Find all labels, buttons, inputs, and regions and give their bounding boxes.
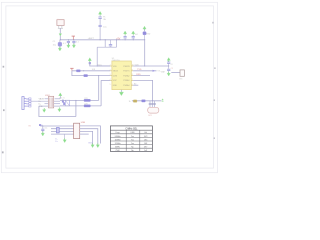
svg-text:8: 8	[132, 74, 133, 76]
wire A main rail	[60, 39, 121, 41]
svg-text:GND: GND	[88, 143, 93, 145]
U1 left pin 3	[110, 75, 112, 77]
D1 stem upper	[144, 29, 146, 32]
svg-text:7: 7	[132, 79, 133, 81]
junction node C6	[125, 39, 126, 40]
buzzer drive wire	[132, 100, 162, 102]
wire J1 to net	[59, 28, 61, 40]
connector USB1 blue	[22, 97, 29, 110]
wire J3 row4	[54, 105, 60, 107]
svg-text:6MHz: 6MHz	[115, 147, 120, 149]
svg-text:UDM: UDM	[113, 75, 118, 77]
table cell texts	[115, 132, 148, 152]
svg-text:P32/A2: P32/A2	[123, 74, 129, 77]
net flag blue on arrow wire	[89, 62, 91, 64]
svg-text:24MHz: 24MHz	[115, 136, 121, 138]
junction node loop right	[116, 39, 117, 40]
U1 right pin 8	[131, 65, 133, 67]
net texts blue ribbon	[55, 139, 58, 143]
junction node V1 row3	[98, 75, 99, 76]
svg-text:4K7: 4K7	[144, 147, 147, 149]
wire down to U1 pin 8	[144, 40, 146, 66]
junction node loop left	[105, 39, 106, 40]
resistor R1	[76, 70, 80, 72]
frame row label A right	[212, 22, 214, 24]
frame row label A left	[3, 66, 5, 68]
C8 C9 labels	[170, 64, 172, 66]
table row lines	[110, 134, 152, 148]
ground under C10	[58, 107, 61, 111]
wire V2 up to U1 pin4	[100, 80, 102, 106]
wire V1 up to U1 pin3	[98, 76, 100, 101]
junction node row2	[83, 70, 84, 71]
net flag green on J1 wire	[59, 34, 62, 36]
buzzer B1 pin ticks	[149, 104, 156, 105]
svg-text:Yes: Yes	[131, 139, 134, 141]
svg-text:10u: 10u	[103, 27, 106, 29]
ground under J2 row3	[91, 143, 94, 147]
resistor R5	[84, 105, 90, 107]
svg-text:1K5: 1K5	[144, 139, 147, 141]
svg-text:VBAT: VBAT	[161, 70, 165, 73]
svg-text:104: 104	[135, 34, 138, 36]
J3 crossed wires	[50, 98, 53, 107]
ferrite FB1 on ribbon	[57, 128, 60, 133]
connector J3 shell	[49, 96, 54, 108]
svg-text:12MHz: 12MHz	[115, 143, 121, 145]
frame row label B right	[214, 67, 215, 69]
svg-text:BT1: BT1	[179, 79, 182, 81]
capacitor C6	[124, 35, 127, 39]
frame row label D right	[214, 137, 215, 139]
svg-text:C8: C8	[170, 64, 172, 66]
green flag right of buzzer	[162, 99, 164, 102]
U1 right pin 6	[131, 75, 133, 77]
U1 left pin 2	[110, 70, 112, 72]
svg-text:VBUS: VBUS	[113, 71, 119, 73]
svg-text:750K: 750K	[115, 150, 120, 152]
svg-text:VCC: VCC	[98, 64, 103, 66]
svg-text:GND: GND	[113, 85, 118, 87]
D1 stem lower	[144, 35, 146, 40]
svg-text:C/MHz SEL: C/MHz SEL	[125, 128, 138, 130]
U1 refdes labels	[112, 58, 120, 62]
wire loop drop right	[116, 40, 118, 47]
svg-text:No: No	[131, 147, 133, 149]
wire U1 pin9 stub	[133, 84, 138, 86]
F1 labels	[103, 17, 106, 21]
wire loop rail	[97, 46, 116, 48]
capacitor C3	[72, 40, 75, 45]
junction node upper	[75, 100, 76, 101]
svg-text:P34/A4: P34/A4	[123, 84, 129, 87]
wire J2 right row2	[80, 129, 98, 145]
USB1 pin boxes	[29, 98, 31, 107]
power arrow above USB cluster	[59, 93, 62, 97]
capacitor C2	[67, 40, 70, 45]
svg-text:C9: C9	[171, 68, 173, 70]
capacitor C7	[132, 35, 135, 39]
svg-text:1k: 1k	[129, 101, 131, 103]
svg-text:VDD: VDD	[135, 64, 140, 66]
ground under USB1	[43, 108, 46, 112]
capacitor C11	[63, 102, 65, 105]
frame row label C right	[214, 99, 215, 101]
junction node right chain	[168, 65, 169, 66]
svg-text:ESD: ESD	[146, 34, 151, 36]
U1 left pin 4	[110, 79, 112, 81]
ground under U1	[119, 92, 123, 96]
resistor R4	[84, 99, 90, 101]
wire U1 pin6 row right	[133, 75, 150, 77]
buzzer B1 pins	[150, 101, 155, 108]
wire J2 right row3	[80, 131, 93, 144]
wire ribbon row2	[51, 128, 74, 130]
LED D2	[133, 100, 137, 102]
wire USB1 to J3 row1 stub	[45, 98, 49, 100]
capacitor C10	[62, 100, 64, 103]
svg-text:No: No	[131, 150, 133, 152]
resistor R2	[84, 75, 88, 77]
wire ribbon row3	[51, 130, 74, 132]
crystal X1 box	[65, 100, 69, 106]
frame row label B left	[3, 109, 5, 111]
wire U1 pin2 row	[72, 70, 110, 72]
op-amp U1 body	[112, 61, 131, 90]
ground under C3	[72, 44, 75, 48]
power arrow above C7	[132, 31, 135, 35]
svg-text:0.1: 0.1	[45, 128, 48, 130]
U1 bottom pad pin	[120, 90, 122, 93]
wire J3 row3	[54, 103, 60, 105]
wire J2 right row4	[80, 133, 89, 135]
junction node buzzer wire	[152, 100, 153, 101]
U1 right pin 7	[131, 70, 133, 72]
junction node wire A at C2	[68, 39, 69, 40]
svg-text:Yes: Yes	[131, 136, 134, 138]
connector J2	[74, 123, 80, 138]
capacitor C4	[99, 25, 102, 40]
power arrow above C6	[124, 31, 127, 35]
power arrow VCC top chain	[99, 11, 102, 15]
svg-text:+BATT: +BATT	[88, 37, 95, 40]
power arrow net left of U1	[88, 58, 91, 62]
junction node row1 riser	[97, 65, 98, 66]
wire USB1 to J3 row2	[31, 100, 48, 102]
svg-text:CH552G: CH552G	[112, 60, 120, 62]
svg-text:P30/RX: P30/RX	[123, 66, 130, 68]
capacitor C1	[58, 40, 62, 48]
svg-text:0.1: 0.1	[63, 43, 66, 45]
ground under C2	[67, 44, 70, 48]
svg-text:VDD: VDD	[113, 66, 118, 68]
svg-text:3V3: 3V3	[144, 136, 147, 138]
wire V3 left loop down	[39, 106, 76, 116]
power arrow right chain	[167, 58, 170, 62]
U1 right pin 5	[131, 79, 133, 81]
battery BT1 wire	[171, 71, 180, 73]
U1 right pin 9	[131, 84, 133, 86]
svg-text:BZ1: BZ1	[148, 115, 151, 117]
svg-text:0.1: 0.1	[76, 41, 79, 43]
wire ribbon row1	[40, 125, 73, 127]
J1 pins	[58, 25, 63, 28]
svg-text:16MHz: 16MHz	[115, 139, 121, 141]
ground under C9	[167, 72, 170, 76]
wire net row upper	[60, 99, 99, 101]
battery BT1	[180, 70, 184, 76]
wire V4 junction riser	[75, 100, 77, 116]
diode D1	[143, 32, 146, 35]
C1 labels	[53, 41, 57, 46]
svg-text:Fsys: Fsys	[116, 132, 120, 134]
resistor R3	[142, 100, 146, 102]
junction node C7	[133, 39, 134, 40]
fuse F1	[98, 16, 101, 25]
ground under C1	[58, 47, 61, 51]
svg-text:P31/TX: P31/TX	[123, 71, 130, 73]
wire U1 pin3 row	[72, 71, 110, 76]
wire USB1 to J3 row3 stub	[45, 103, 49, 105]
ground under J2 row2	[96, 143, 99, 147]
wire arrow to U1 pin1	[90, 62, 110, 66]
wire U1 pin8 row right	[133, 65, 169, 67]
buzzer B1 body	[148, 107, 159, 113]
BT1 labels	[161, 70, 183, 80]
table column lines	[126, 130, 140, 151]
frame outer border	[1, 2, 217, 172]
frame label bottom-left	[2, 151, 4, 153]
wire A2 rail	[121, 39, 144, 41]
USB1 pin labels	[39, 99, 45, 109]
wire U1 pin5 row right and down	[133, 80, 153, 100]
ground under C12	[41, 132, 44, 136]
wire U1 pin7 row right	[133, 70, 156, 72]
wire J3 left stub	[39, 105, 48, 107]
U1 pin name texts	[113, 66, 131, 87]
junction node pin8	[144, 65, 145, 66]
ground stub ribbon	[64, 134, 66, 140]
wire loop drop left	[104, 40, 106, 47]
junction node ribbon row1	[42, 125, 43, 126]
table frame	[110, 126, 152, 151]
junction node wire A at C3	[73, 39, 74, 40]
svg-text:Yes: Yes	[131, 143, 134, 145]
net flag blue ribbon	[39, 124, 42, 126]
svg-text:RXD: RXD	[136, 74, 141, 76]
svg-text:5: 5	[110, 84, 111, 86]
svg-text:USB: USB	[81, 122, 86, 124]
power +5V symbol P1	[72, 36, 75, 40]
frame inner border	[6, 6, 214, 168]
capacitor C8	[167, 62, 170, 66]
svg-text:P33/A3: P33/A3	[123, 79, 129, 82]
power +5V symbol P2	[70, 68, 73, 71]
wire J2 right row1	[80, 126, 101, 144]
U1 left pin 1	[110, 65, 112, 67]
wire net row lower	[60, 105, 101, 107]
svg-text:TXD: TXD	[137, 69, 142, 71]
junction node lower	[75, 105, 76, 106]
wire J3 row2	[54, 100, 60, 102]
junction node wire A at J1	[60, 39, 61, 40]
wire loop riser to row1	[97, 47, 110, 66]
power arrow above D1	[143, 26, 146, 30]
junction node chain B on wire A	[100, 39, 101, 40]
svg-text:6: 6	[132, 84, 133, 86]
table header row line	[110, 129, 152, 131]
capacitor C12	[41, 126, 44, 133]
wire ribbon row4	[51, 133, 74, 135]
capacitor C9	[167, 66, 170, 73]
capacitor C5	[109, 40, 112, 47]
net port arrow pin7	[153, 70, 156, 72]
wire U1 pin4 down-left	[101, 79, 110, 81]
wire J3 row1	[55, 98, 60, 100]
junction node D1	[144, 39, 145, 40]
svg-text:+5V: +5V	[116, 39, 121, 41]
svg-text:9: 9	[132, 69, 133, 71]
svg-text:C13 X1: C13 X1	[59, 98, 65, 100]
connector J1	[57, 19, 64, 26]
